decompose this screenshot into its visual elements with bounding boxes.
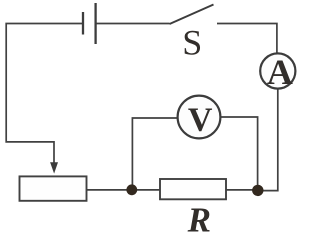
svg-text:V: V	[188, 101, 213, 138]
svg-text:A: A	[267, 52, 293, 92]
svg-text:S: S	[182, 23, 202, 63]
svg-text:R: R	[187, 201, 211, 233]
